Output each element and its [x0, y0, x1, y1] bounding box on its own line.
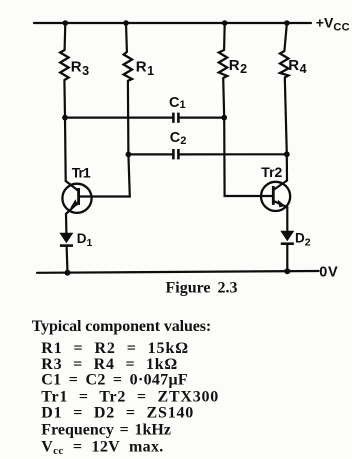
- node C: C1 / Tr2 base junction: [221, 115, 227, 121]
- svg-text:R4: R4: [288, 57, 306, 76]
- capacitor C1: [65, 113, 224, 123]
- svg-text:R1: R1: [136, 59, 154, 78]
- svg-text:R1 = R2 = 15kΩ: R1 = R2 = 15kΩ: [41, 340, 189, 357]
- node: rail junction branch1: [63, 20, 69, 26]
- wire node B down to Tr1 base corner: [81, 154, 130, 196]
- svg-text:Vcc = 12V max.: Vcc = 12V max.: [41, 439, 163, 458]
- svg-text:Typical component values:: Typical component values:: [32, 318, 211, 335]
- svg-text:R3: R3: [71, 59, 89, 78]
- svg-text:C1: C1: [169, 95, 186, 111]
- node: rail junction branch4: [284, 20, 290, 26]
- wire R3 to node A: [63, 80, 66, 118]
- wire rail to R2: [223, 23, 226, 50]
- svg-text:Frequency = 1kHz: Frequency = 1kHz: [41, 421, 171, 438]
- transistor Tr1: [62, 181, 91, 214]
- svg-text:+VCC: +VCC: [316, 15, 350, 34]
- wire node C down to Tr2 base corner: [224, 118, 272, 196]
- svg-text:Figure 2.3: Figure 2.3: [166, 280, 238, 297]
- wire R2 to node C: [223, 78, 224, 118]
- 0V rail: [37, 271, 319, 273]
- transistor Tr2: [261, 181, 290, 211]
- node D: Tr2 collector / C2 junction: [284, 151, 290, 157]
- wire rail to R4: [284, 23, 287, 51]
- node: rail junction branch2: [123, 20, 129, 26]
- svg-text:R2: R2: [229, 57, 247, 76]
- wire Tr1 emitter to D1: [65, 214, 68, 233]
- node: 0V junction D2: [284, 268, 290, 274]
- resistor R1: [124, 52, 132, 81]
- wire node D to Tr2 collector: [286, 154, 288, 180]
- node A: Tr1 collector / C1 junction: [62, 115, 68, 121]
- svg-text:Tr1: Tr1: [72, 165, 91, 181]
- wire Tr2 emitter to D2: [286, 207, 288, 231]
- svg-text:D2: D2: [295, 231, 311, 249]
- wire R1 to node B: [127, 81, 130, 155]
- resistor R4: [280, 51, 288, 78]
- svg-text:Tr1 = Tr2 = ZTX300: Tr1 = Tr2 = ZTX300: [41, 389, 219, 406]
- svg-text:C2: C2: [170, 130, 187, 147]
- svg-text:C1 = C2 = 0·047μF: C1 = C2 = 0·047μF: [41, 371, 188, 388]
- wire node A to Tr1 collector: [64, 118, 67, 181]
- capacitor C2: [128, 149, 286, 159]
- node: rail junction branch3: [222, 20, 228, 26]
- +Vcc supply rail: [34, 22, 311, 24]
- resistor R2: [219, 50, 227, 78]
- resistor R3: [60, 50, 68, 80]
- wire R4 to node D: [285, 78, 287, 155]
- node B: Tr1 base / C2 junction: [125, 152, 131, 158]
- svg-text:D1 = D2 = ZS140: D1 = D2 = ZS140: [41, 404, 194, 421]
- svg-text:0V: 0V: [319, 265, 338, 281]
- wire rail to R1: [125, 23, 128, 52]
- diode D2: [280, 231, 294, 271]
- svg-text:D1: D1: [77, 231, 93, 249]
- diode D1: [59, 233, 73, 273]
- svg-text:R3 = R4 = 1kΩ: R3 = R4 = 1kΩ: [41, 356, 178, 373]
- svg-text:Tr2: Tr2: [261, 164, 282, 180]
- wire rail to R3: [63, 23, 66, 50]
- node: 0V junction D1: [65, 270, 71, 276]
